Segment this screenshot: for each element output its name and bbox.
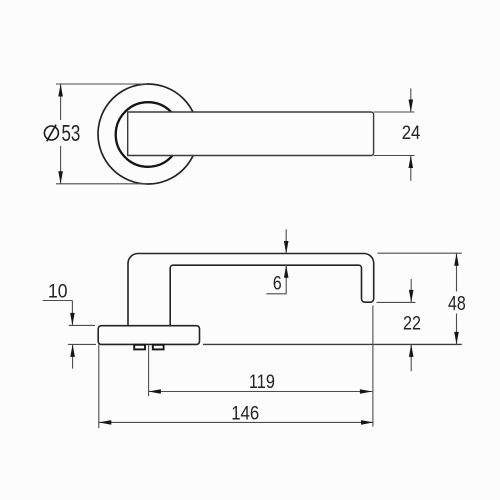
dim 6 lower arrow (285, 265, 287, 294)
dim Ø53 line (60, 84, 62, 120)
dim 48 line (456, 253, 458, 291)
dia symbol (44, 125, 58, 142)
dim 6 shelf (266, 293, 286, 295)
svg-text:24: 24 (402, 123, 421, 144)
inner rose circle (116, 102, 181, 167)
fixing lug left (134, 345, 145, 350)
dim 22 arrows (410, 279, 412, 302)
dim 6 upper arrow (285, 229, 287, 253)
dim 119 ext left (148, 345, 150, 396)
lever bar (plan) (128, 112, 374, 156)
long bottom ext line left (68, 343, 96, 345)
lever profile (128, 254, 374, 326)
dim 146 line (99, 421, 374, 423)
dim 48 ext top (378, 252, 462, 254)
dim 10 shelf (43, 300, 73, 302)
rose plate (side) (98, 326, 199, 345)
dim Ø53 ext top (56, 83, 147, 85)
svg-text:146: 146 (231, 403, 259, 425)
svg-text:48: 48 (448, 293, 466, 315)
dim 10 ext top (69, 324, 95, 326)
dim 146 ext left (98, 344, 100, 428)
dim 119 ext right (long) (372, 305, 374, 426)
dim 10 lower arrow (72, 344, 74, 368)
svg-text:119: 119 (249, 371, 275, 393)
outer rose circle (98, 84, 198, 184)
svg-text:10: 10 (48, 282, 68, 303)
dim 24 ext bottom (374, 155, 415, 157)
dim 24 arrows (410, 88, 412, 112)
svg-text:6: 6 (273, 274, 282, 295)
dim 119 line (148, 391, 372, 393)
dim 24 ext top (374, 111, 415, 113)
svg-text:53: 53 (62, 120, 81, 146)
svg-text:22: 22 (403, 313, 421, 334)
fixing lug right (153, 345, 164, 350)
long bottom ext line right (203, 343, 462, 345)
dim Ø53 ext bottom (56, 183, 147, 185)
dim 22 ext top (377, 301, 416, 303)
